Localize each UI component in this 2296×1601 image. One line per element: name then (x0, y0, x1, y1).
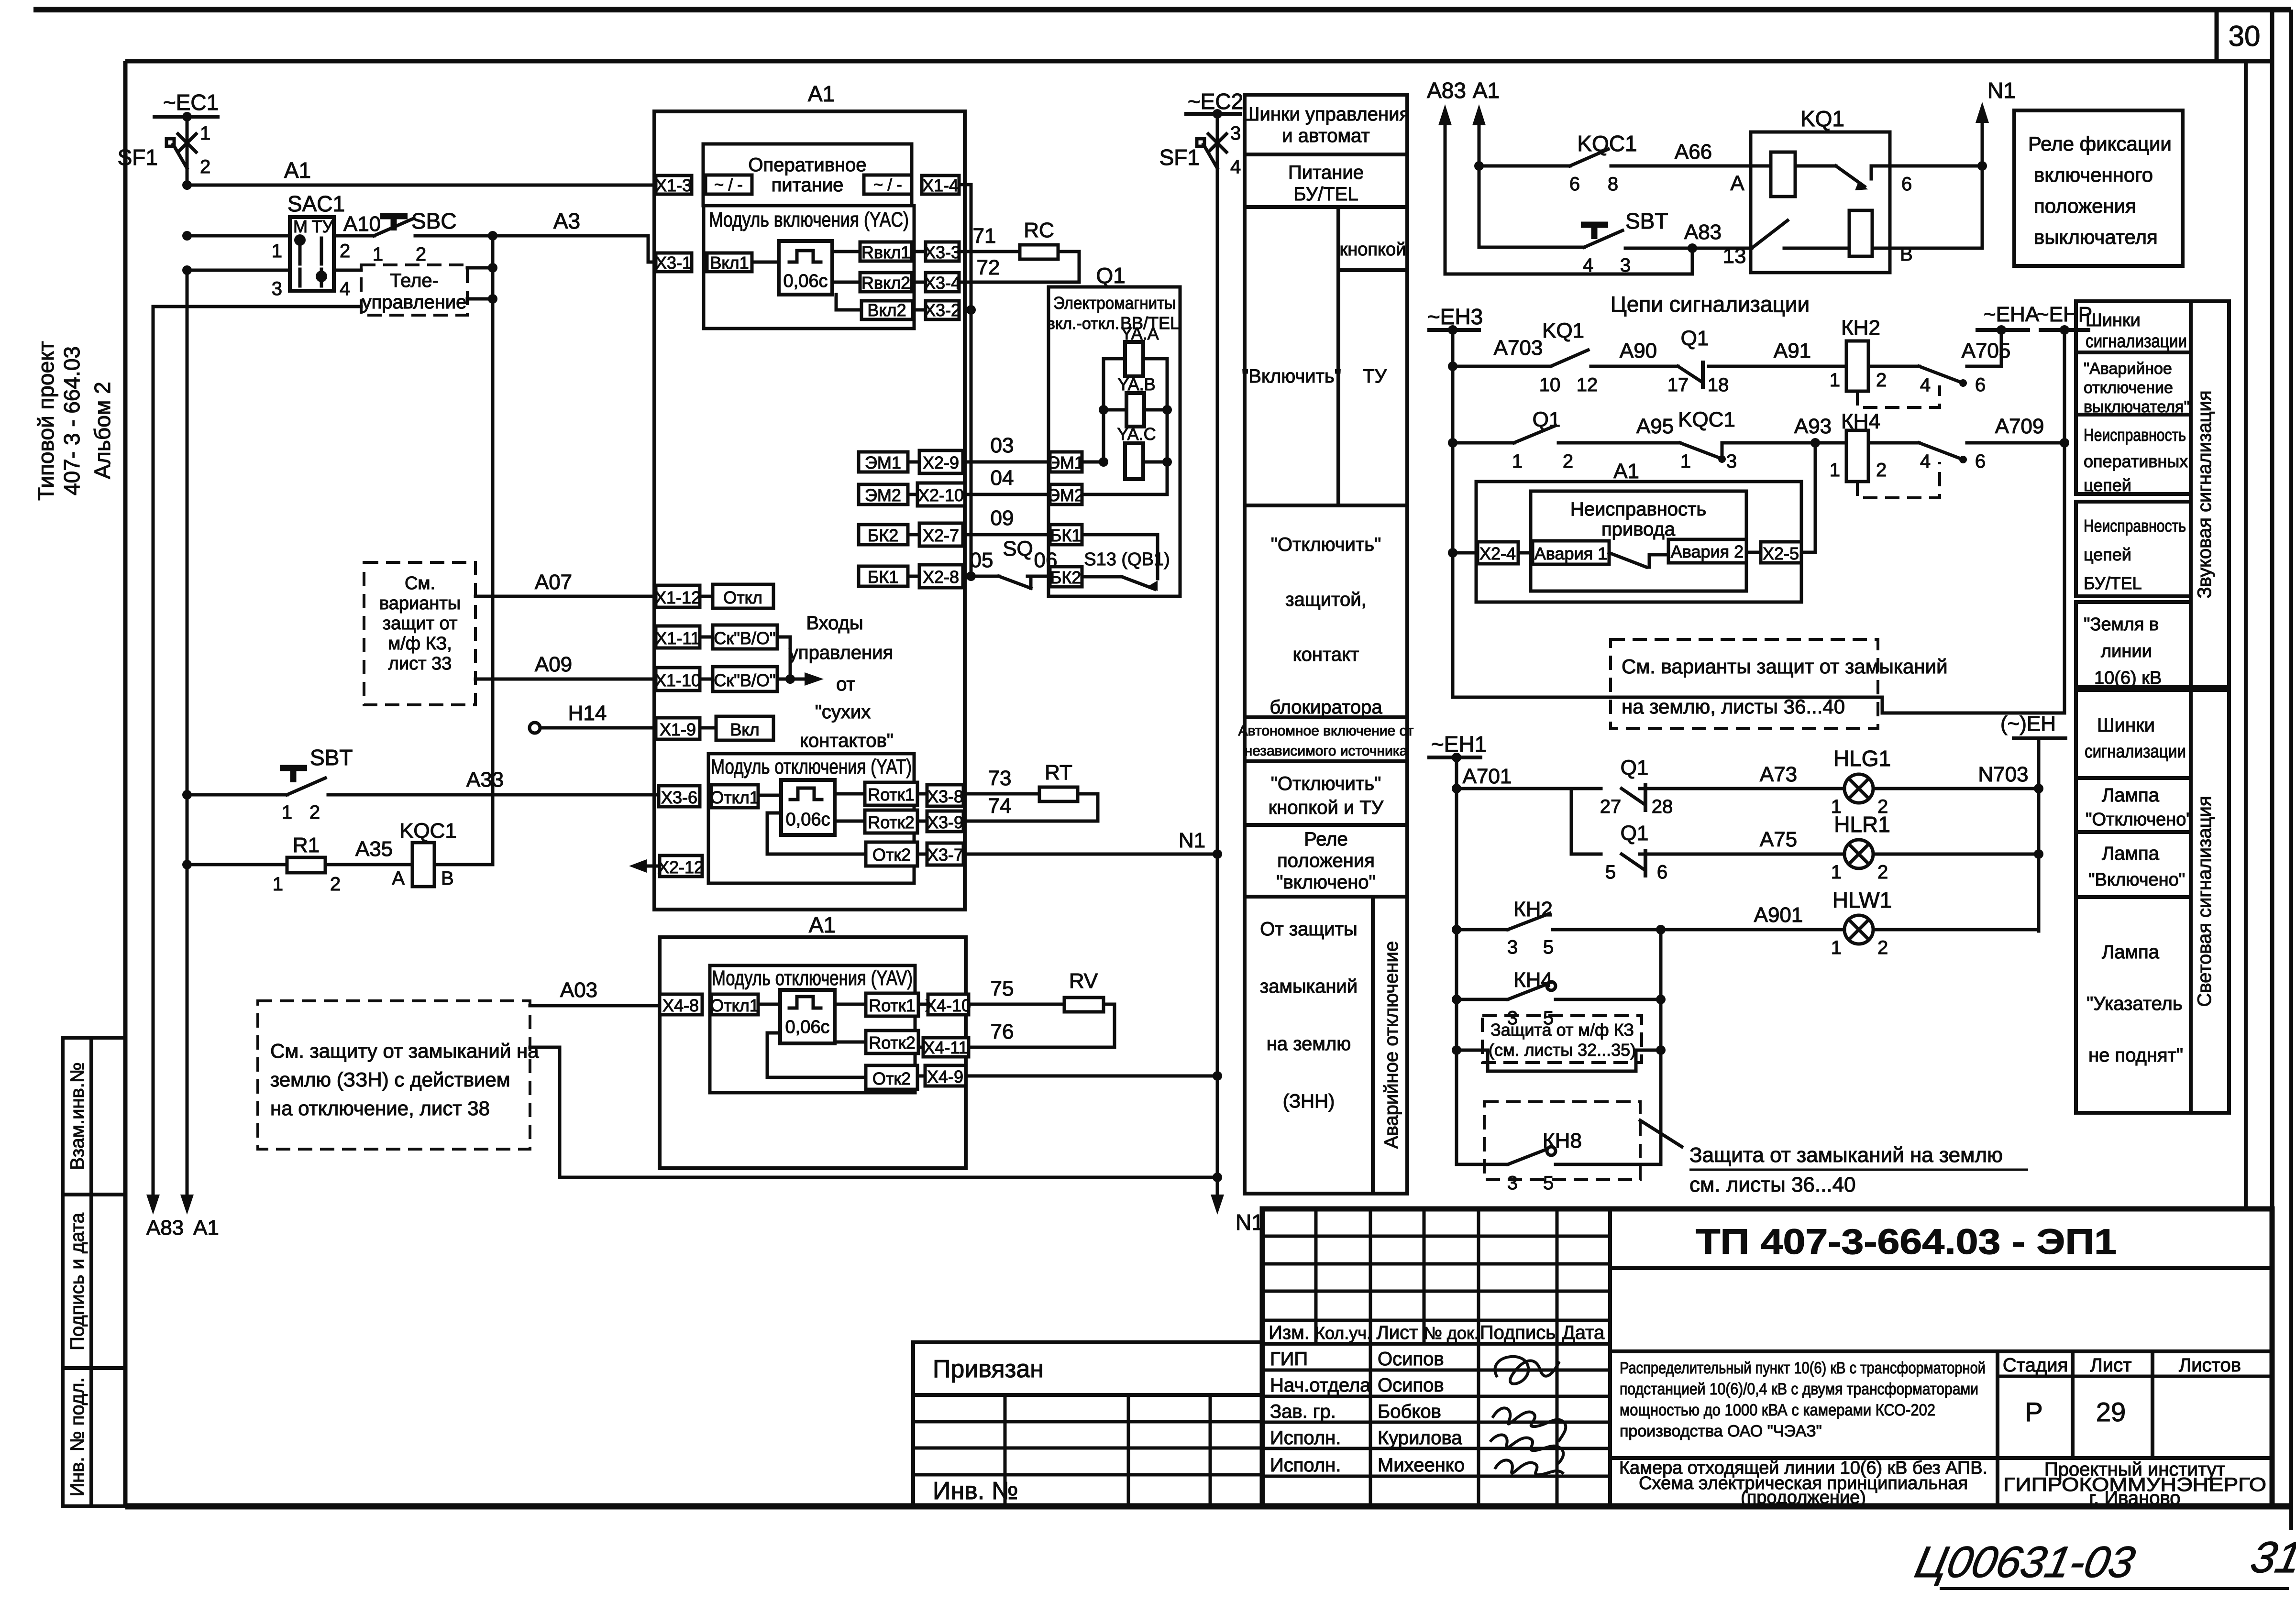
svg-text:A: A (1730, 172, 1744, 195)
pin Откл (713, 584, 773, 608)
svg-text:Осипов: Осипов (1378, 1349, 1444, 1370)
svg-text:Звуковая сигнализация: Звуковая сигнализация (2194, 391, 2215, 599)
svg-text:6: 6 (1975, 451, 1986, 472)
svg-text:блокиратора: блокиратора (1269, 697, 1382, 718)
svg-text:A07: A07 (535, 570, 572, 594)
svg-text:Взам.инв.№: Взам.инв.№ (67, 1062, 88, 1170)
svg-text:Оперативное: Оперативное (748, 154, 866, 175)
svg-text:Входы: Входы (806, 613, 863, 634)
svg-text:13: 13 (1723, 244, 1746, 268)
terminal X1-12 (656, 585, 700, 607)
main title block outline (1262, 1209, 2272, 1506)
svg-text:~EHA: ~EHA (1984, 303, 2040, 326)
node H14 (530, 723, 540, 733)
svg-text:Автономное включение от: Автономное включение от (1238, 723, 1414, 739)
svg-text:SAC1: SAC1 (287, 191, 345, 216)
svg-text:"включено": "включено" (1276, 872, 1375, 893)
pin БК1 (Q1) (1050, 525, 1082, 545)
svg-text:вкл.-откл.: вкл.-откл. (1047, 315, 1119, 333)
svg-text:Распределительный пункт 10(6): Распределительный пункт 10(6) кВ с транс… (1620, 1359, 1986, 1377)
svg-text:Исполн.: Исполн. (1270, 1427, 1341, 1448)
arrow dry contacts (790, 678, 808, 681)
svg-text:5: 5 (1543, 1173, 1554, 1194)
svg-text:SBC: SBC (411, 208, 457, 233)
dashed box ZZN protection (258, 1001, 530, 1149)
svg-text:кнопкой и ТУ: кнопкой и ТУ (1269, 797, 1384, 818)
arrow A1 down (180, 1195, 194, 1215)
pin Rвкл1 (860, 242, 912, 261)
pin Rотк1 (865, 782, 917, 805)
svg-text:Михеенко: Михеенко (1378, 1455, 1465, 1476)
svg-text:X4-11: X4-11 (923, 1038, 968, 1057)
svg-text:2: 2 (330, 874, 341, 895)
svg-text:SBT: SBT (310, 745, 353, 770)
strip Звуковая сигнализация (2191, 301, 2229, 687)
wire row KQC1 (1474, 161, 1484, 171)
svg-text:X3-2: X3-2 (924, 300, 960, 320)
svg-text:76: 76 (991, 1020, 1014, 1043)
svg-text:A703: A703 (1494, 336, 1543, 360)
node junction lamp row to KH4 branch (1656, 925, 1666, 934)
svg-text:Ск"В/О": Ск"В/О" (714, 628, 775, 648)
coil KQ1-A (1771, 152, 1795, 197)
pin Rотк2 (865, 810, 917, 833)
terminal X3-7 (927, 843, 963, 865)
svg-text:0,06с: 0,06с (786, 810, 830, 830)
svg-text:Подпись и дата: Подпись и дата (67, 1212, 88, 1350)
svg-text:ГИП: ГИП (1270, 1349, 1308, 1370)
wire X3-7 to N1 bus (963, 853, 1217, 856)
terminal X4-9 (925, 1065, 966, 1086)
node A3 junction (488, 231, 497, 241)
wire SAC1 row2 (187, 269, 290, 272)
stage/sheet (2071, 1351, 2075, 1458)
svg-text:2: 2 (1877, 862, 1888, 883)
wire X4-9 to N1 bus (966, 1075, 1217, 1078)
svg-text:X2-7: X2-7 (923, 526, 959, 545)
svg-text:3: 3 (272, 278, 282, 299)
svg-text:3: 3 (1726, 451, 1737, 472)
pin Ск"В/О" upper (713, 625, 777, 649)
svg-text:X1-10: X1-10 (655, 670, 701, 690)
svg-text:См. защиту от замыканий на: См. защиту от замыканий на (270, 1040, 539, 1062)
svg-text:Авария 1: Авария 1 (1534, 544, 1607, 563)
pin Вкл1 (707, 253, 752, 272)
stamp box Взам.инв.№ (63, 1038, 125, 1195)
row HLW1 / KH2 contact (1452, 925, 1461, 934)
terminal X3-6 (659, 786, 700, 807)
pushbutton SBT (182, 790, 192, 800)
svg-text:положения: положения (1277, 850, 1375, 871)
svg-text:Ск"В/О": Ск"В/О" (714, 670, 775, 690)
contact KH8 (1457, 1163, 1508, 1166)
svg-text:Аварийное отключение: Аварийное отключение (1381, 941, 1402, 1149)
svg-text:Осипов: Осипов (1378, 1375, 1444, 1396)
svg-text:A83: A83 (1427, 78, 1466, 103)
pulse relay 0,06с (YAV) (780, 990, 835, 1043)
wire 09 (963, 533, 1050, 537)
svg-text:X2-10: X2-10 (918, 485, 964, 505)
svg-text:(~)EH: (~)EH (2000, 712, 2056, 735)
box Питание БУ/TEL (1245, 154, 1407, 207)
svg-text:N1: N1 (1236, 1210, 1264, 1235)
dashed box Защита от м/ф КЗ (1482, 1016, 1642, 1063)
svg-text:Rвкл2: Rвкл2 (861, 273, 910, 293)
svg-text:X3-1: X3-1 (655, 253, 692, 273)
svg-text:Защита от м/ф КЗ: Защита от м/ф КЗ (1490, 1020, 1634, 1040)
svg-text:03: 03 (991, 434, 1014, 457)
terminal X3-1 (656, 253, 692, 272)
svg-text:28: 28 (1652, 796, 1673, 817)
svg-text:YA.C: YA.C (1117, 424, 1156, 444)
svg-text:6: 6 (1657, 862, 1667, 883)
KH4 mech dashes (1857, 462, 1940, 498)
terminal X4-11 (923, 1038, 969, 1057)
svg-text:X1-11: X1-11 (655, 628, 700, 648)
svg-text:3: 3 (1507, 1173, 1518, 1194)
svg-text:04: 04 (991, 466, 1014, 490)
node N703 junction (2034, 784, 2043, 793)
svg-text:Rотк2: Rотк2 (868, 812, 915, 832)
LEFT STAMP COLUMN (33, 341, 125, 1506)
svg-text:Теле-: Теле- (390, 270, 439, 291)
svg-text:6: 6 (1901, 174, 1912, 195)
pin Отк2 (YAV) (866, 1065, 917, 1089)
svg-text:Инв. № подл.: Инв. № подл. (67, 1377, 88, 1496)
svg-text:X1-12: X1-12 (655, 588, 701, 607)
svg-text:SF1: SF1 (118, 145, 158, 170)
svg-text:1: 1 (273, 874, 283, 895)
svg-text:A73: A73 (1760, 763, 1797, 786)
svg-text:Лампа: Лампа (2102, 942, 2160, 963)
svg-text:отключение: отключение (2084, 379, 2173, 397)
svg-text:Шинки: Шинки (2086, 310, 2141, 330)
wires pulse to R pins (832, 250, 860, 253)
svg-text:6: 6 (1975, 374, 1986, 395)
pushbutton SBC (380, 213, 408, 219)
svg-text:См.: См. (405, 573, 435, 593)
svg-text:линии: линии (2101, 641, 2152, 661)
svg-text:1: 1 (282, 802, 292, 823)
wire B to N1 riser (1890, 166, 1982, 248)
svg-text:2: 2 (1563, 451, 1573, 472)
svg-text:5: 5 (1605, 862, 1616, 883)
svg-text:ЭМ1: ЭМ1 (865, 453, 901, 472)
svg-text:29: 29 (2096, 1397, 2126, 1427)
wire SAC1 row1 (187, 234, 290, 238)
svg-text:Ц00631-03: Ц00631-03 (1911, 1537, 2139, 1587)
big document number (1610, 1266, 2272, 1270)
module YAT box (708, 754, 914, 883)
box Шинки сигнализации (звуковая) (2076, 301, 2191, 352)
svg-text:71: 71 (973, 224, 996, 248)
row Q1 / A95 / KQC1 / A93 / KH4 (1448, 438, 1457, 448)
svg-text:См. варианты защит от замыкани: См. варианты защит от замыканий (1622, 655, 1948, 678)
svg-text:см. листы 36...40: см. листы 36...40 (1689, 1173, 1856, 1196)
row KQ1 contact / A90 / Q1 / A91 / KH2 (1448, 362, 1457, 371)
svg-text:БУ/TEL: БУ/TEL (2084, 573, 2142, 593)
wire A03 (530, 1004, 661, 1008)
svg-text:A3: A3 (553, 208, 580, 233)
svg-text:X1-4: X1-4 (922, 175, 959, 195)
wire 73 + resistor RT (963, 792, 1039, 796)
svg-text:контактов": контактов" (800, 730, 894, 751)
svg-text:производства ОАО "ЧЭАЗ": производства ОАО "ЧЭАЗ" (1620, 1422, 1822, 1440)
svg-text:ТП 407-3-664.03 - ЭП1: ТП 407-3-664.03 - ЭП1 (1696, 1222, 2117, 1261)
svg-text:ЭМ2: ЭМ2 (1048, 485, 1084, 505)
arrow N1 down (1211, 1195, 1224, 1215)
svg-text:сигнализации: сигнализации (2086, 331, 2187, 351)
wire SBT row (1445, 248, 1692, 274)
wire dry-contact link (777, 637, 790, 679)
pulse relay 0,06с (YAC) (779, 241, 832, 295)
svg-text:ТУ: ТУ (1363, 366, 1387, 387)
svg-text:Защита от замыканий на землю: Защита от замыканий на землю (1689, 1143, 2003, 1167)
svg-text:Неисправность: Неисправность (2084, 425, 2186, 445)
bus EC1 rail (155, 115, 218, 119)
terminal X3-2 (926, 301, 959, 319)
svg-text:Лист: Лист (2090, 1355, 2132, 1376)
svg-text:A705: A705 (1962, 339, 2011, 362)
wire A3 jog to X3-1 (648, 236, 657, 262)
svg-text:YA.B: YA.B (1117, 374, 1155, 394)
arrow A83 up (1438, 104, 1452, 125)
svg-text:A1: A1 (1473, 78, 1500, 103)
wire A3 (415, 234, 648, 238)
svg-text:A701: A701 (1463, 765, 1512, 788)
svg-text:10(6) кВ: 10(6) кВ (2094, 668, 2162, 688)
svg-text:1: 1 (1830, 370, 1840, 391)
row HLG1 (1452, 784, 1461, 793)
svg-text:A66: A66 (1675, 140, 1712, 164)
pin Авария 1 (1533, 541, 1609, 564)
svg-text:1: 1 (1512, 451, 1523, 472)
wire A07 (475, 595, 657, 598)
pulse relay 0,06с (YAT) (781, 780, 835, 835)
svg-text:питание: питание (772, 175, 844, 196)
terminal X2-12 with arrow (660, 855, 702, 877)
arrow A1 up (1472, 104, 1486, 125)
svg-text:Rотк1: Rотк1 (869, 996, 916, 1015)
dashed box protections m/f KZ (364, 562, 475, 705)
svg-text:ТУ: ТУ (312, 217, 334, 236)
svg-text:БК2: БК2 (868, 526, 899, 545)
wire loop Отк2 (YAT) (767, 813, 866, 854)
svg-text:"Аварийное: "Аварийное (2084, 360, 2172, 378)
svg-text:2: 2 (416, 244, 426, 265)
svg-text:"Включено": "Включено" (2088, 870, 2185, 890)
svg-text:4: 4 (340, 278, 350, 299)
svg-text:SBT: SBT (1625, 208, 1668, 233)
pushbutton SBT (right) (1581, 222, 1608, 228)
svg-text:A35: A35 (355, 837, 393, 861)
box Отключить защитой контакт блокиратора (1245, 505, 1407, 717)
svg-text:X3-4: X3-4 (924, 273, 960, 293)
wire to N1 top (1890, 164, 1982, 168)
svg-text:ЭМ1: ЭМ1 (1048, 453, 1084, 472)
contact Q1 27-28 (closing) (1622, 789, 1645, 804)
svg-text:цепей: цепей (2084, 475, 2131, 495)
svg-text:KQC1: KQC1 (399, 819, 457, 843)
svg-text:"Отключено": "Отключено" (2086, 810, 2193, 830)
svg-text:1: 1 (272, 241, 282, 262)
svg-text:М: М (293, 217, 308, 236)
module pin БК1 (859, 566, 908, 586)
svg-text:09: 09 (991, 506, 1014, 530)
svg-text:X4-10: X4-10 (925, 996, 971, 1015)
wire EH3 to X2-4 (1448, 548, 1457, 558)
svg-text:м/ф КЗ,: м/ф КЗ, (388, 634, 452, 654)
svg-text:выключателя: выключателя (2034, 226, 2158, 248)
svg-text:A1: A1 (809, 912, 836, 937)
svg-text:8: 8 (1608, 174, 1618, 195)
arrow N1 up (1981, 115, 1984, 166)
svg-text:Модуль включения (YAC): Модуль включения (YAC) (709, 208, 909, 231)
wire X1-4 drop (959, 185, 971, 576)
svg-text:Световая сигнализация: Световая сигнализация (2194, 796, 2215, 1007)
svg-text:(продолжение): (продолжение) (1741, 1488, 1866, 1508)
svg-text:5: 5 (1543, 937, 1554, 958)
svg-text:A1: A1 (808, 81, 835, 106)
callout ground-fault (1640, 1120, 1682, 1147)
module pin ЭМ2 (859, 484, 908, 504)
converter box left ~/- (706, 175, 752, 194)
arrow A83 down (146, 1195, 160, 1215)
bus A1 vertical (186, 270, 189, 1198)
svg-text:От защиты: От защиты (1260, 919, 1357, 940)
svg-text:HLR1: HLR1 (1834, 812, 1890, 837)
svg-text:1: 1 (1830, 460, 1840, 481)
svg-text:X2-9: X2-9 (923, 453, 959, 472)
box Неисправность цепей БУ/TEL (2076, 502, 2191, 596)
terminal X2-4 (1478, 542, 1518, 564)
svg-text:RT: RT (1045, 761, 1072, 784)
svg-text:27: 27 (1600, 796, 1622, 817)
wire A09 (475, 678, 657, 681)
svg-text:Р: Р (2025, 1397, 2042, 1427)
wire TU bottom stub (467, 297, 493, 301)
wire N1 bus vertical (1216, 114, 1219, 1198)
svg-text:A709: A709 (1995, 415, 2044, 438)
svg-text:A09: A09 (535, 653, 572, 676)
terminal X1-11 (656, 626, 700, 648)
svg-text:A83: A83 (1684, 220, 1722, 244)
svg-text:2: 2 (309, 802, 320, 823)
svg-text:A1: A1 (1613, 460, 1639, 483)
svg-text:на землю, листы 36...40: на землю, листы 36...40 (1622, 695, 1845, 718)
wire loop Отк2 (YAV) (767, 1033, 866, 1077)
svg-text:"Отключить": "Отключить" (1271, 534, 1381, 555)
pin Rотк1 (YAV) (866, 993, 918, 1016)
svg-text:S13 (QB1): S13 (QB1) (1084, 549, 1170, 570)
contact KQ1 upper (1836, 166, 1865, 186)
svg-text:Зав. гр.: Зав. гр. (1270, 1401, 1336, 1422)
svg-text:Шинки: Шинки (2097, 715, 2155, 736)
svg-text:Лампа: Лампа (2102, 843, 2160, 864)
box Лампа Указатель не поднят (2076, 897, 2191, 1113)
svg-text:17: 17 (1667, 374, 1689, 395)
svg-text:A33: A33 (466, 768, 504, 791)
svg-text:Вкл: Вкл (730, 720, 759, 739)
terminal X3-3 (926, 242, 959, 261)
svg-text:г. Иваново: г. Иваново (2089, 1488, 2180, 1509)
svg-text:БК1: БК1 (868, 567, 899, 587)
pin Авария 2 (1668, 539, 1746, 563)
svg-text:"сухих: "сухих (815, 702, 871, 723)
contact KQ1 13 (1752, 220, 1788, 248)
box Земля в линии 10(6) кВ (2076, 602, 2191, 687)
svg-text:Откл: Откл (723, 588, 762, 607)
svg-text:Неисправность: Неисправность (2084, 516, 2186, 536)
svg-text:RC: RC (1024, 219, 1054, 242)
svg-text:A83: A83 (146, 1216, 184, 1239)
wire TU top stub (467, 266, 493, 270)
wire 71 + resistor RC (959, 250, 1020, 253)
svg-text:2: 2 (1877, 937, 1888, 958)
wire A83 to KQ1 (1625, 247, 1752, 250)
node N1 junction top right (1977, 161, 1987, 171)
svg-text:кнопкой: кнопкой (1340, 240, 1406, 260)
signatures (handwritten squiggles) (1495, 1357, 1559, 1384)
svg-text:SQ: SQ (1003, 537, 1033, 560)
pin ЭМ2 (Q1) (1050, 484, 1082, 504)
svg-text:73: 73 (988, 767, 1012, 790)
svg-text:Инв. №: Инв. № (933, 1477, 1018, 1505)
wire A35 (325, 863, 412, 866)
svg-text:Дата: Дата (1562, 1322, 1605, 1343)
svg-text:"Включить": "Включить" (1242, 366, 1341, 387)
right sheet edge (2289, 10, 2293, 1530)
Привязан box (913, 1342, 1262, 1506)
handwritten inventory number (1911, 1533, 2296, 1587)
inner frame right (2270, 10, 2274, 1506)
stamp box Инв. № подл. (63, 1368, 125, 1506)
page number box 30 (2215, 10, 2219, 61)
svg-text:Откл1: Откл1 (710, 996, 759, 1015)
svg-text:"Земля в: "Земля в (2084, 614, 2159, 635)
svg-text:защитой,: защитой, (1285, 589, 1366, 610)
dashed box См. варианты защит (1611, 639, 1878, 728)
svg-text:X1-3: X1-3 (655, 175, 692, 195)
svg-text:Типовой проект: Типовой проект (33, 341, 58, 501)
svg-text:Модуль отключения (YAV): Модуль отключения (YAV) (712, 966, 913, 990)
svg-text:N1: N1 (1987, 78, 2016, 103)
svg-text:"Указатель: "Указатель (2086, 993, 2183, 1014)
svg-text:КН2: КН2 (1841, 316, 1880, 340)
svg-text:Кол.уч.: Кол.уч. (1315, 1323, 1371, 1343)
svg-text:2: 2 (1876, 370, 1887, 391)
svg-text:~ / -: ~ / - (873, 176, 902, 194)
wire loop Вкл2 (836, 295, 861, 310)
wire 75 + resistor RV (969, 1003, 1064, 1006)
dashed box KH8 (1484, 1102, 1640, 1180)
svg-text:2: 2 (1876, 460, 1887, 481)
svg-text:X3-8: X3-8 (927, 787, 963, 806)
block A1 outline (lower) (660, 937, 966, 1168)
node A83 junction (1688, 243, 1697, 253)
box Лампа Включено (2076, 832, 2191, 897)
contact Q1 17-18 (closing) (1678, 366, 1703, 383)
coil KQ1-B (1849, 210, 1872, 256)
svg-text:Rотк1: Rотк1 (868, 785, 915, 804)
module YAV box (710, 965, 915, 1093)
TITLE BLOCK (913, 1209, 2296, 1589)
pin Вкл (716, 716, 773, 740)
terminal X2-5 (1761, 542, 1801, 563)
svg-text:~EH3: ~EH3 (1427, 304, 1483, 329)
svg-text:ЭМ2: ЭМ2 (865, 485, 901, 505)
box Неисправность привода (1531, 491, 1746, 591)
